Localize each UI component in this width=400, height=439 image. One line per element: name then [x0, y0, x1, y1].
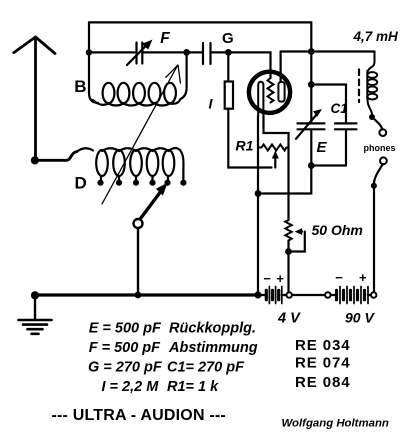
wire grid node to tube grid [228, 52, 270, 78]
svg-text:E: E [317, 139, 328, 156]
capacitor G [203, 43, 211, 64]
node selector-bus [135, 292, 142, 299]
wire rheostat to battery [287, 241, 289, 293]
coil D L1 [77, 148, 108, 176]
ground bus [35, 293, 258, 296]
tap selector arrow [134, 183, 168, 228]
wire 4V to 90V [292, 294, 325, 296]
svg-text:R1: R1 [236, 138, 254, 154]
tube grid [268, 78, 274, 103]
svg-text:+: + [359, 270, 367, 285]
ground symbol [19, 295, 52, 334]
potentiometer R1 [258, 145, 289, 151]
node tank left [86, 49, 92, 55]
svg-text:RE 034: RE 034 [295, 337, 350, 354]
capacitor F [127, 40, 153, 66]
wire antenna to coil D [35, 152, 77, 161]
svg-text:−: − [263, 271, 271, 286]
wire anode top [281, 50, 375, 52]
ground node [31, 291, 39, 299]
svg-text:Abstimmung: Abstimmung [168, 340, 258, 356]
node filament-bus junction [254, 291, 261, 298]
node grid [225, 49, 232, 56]
wire I to wiper [228, 109, 271, 168]
coil B L3 [133, 83, 145, 103]
svg-text:I = 2,2 M: I = 2,2 M [102, 379, 160, 395]
svg-text:+: + [276, 271, 284, 286]
node E bottom [308, 162, 315, 169]
svg-text:RE 084: RE 084 [295, 374, 350, 391]
battery 90V [331, 287, 372, 304]
choke core dashed line [358, 70, 360, 103]
svg-text:Wolfgang Holtmann: Wolfgang Holtmann [282, 418, 389, 430]
svg-text:RE 074: RE 074 [295, 355, 350, 372]
svg-text:phones: phones [364, 143, 396, 153]
phones terminal top [379, 129, 386, 136]
coil B L5 [164, 83, 176, 103]
node cathode return [255, 190, 262, 197]
coil D right hook [169, 148, 184, 170]
battery 4V [258, 287, 286, 304]
wire node down to resistor I [227, 52, 229, 81]
svg-text:E = 500 pF: E = 500 pF [89, 320, 162, 336]
coil D L3 [119, 148, 142, 176]
svg-text:F: F [160, 30, 170, 47]
tube anode [278, 52, 284, 102]
svg-text:F = 500 pF: F = 500 pF [89, 340, 161, 356]
svg-text:C1: C1 [331, 101, 348, 116]
wire anode node down [310, 52, 312, 122]
terminal 4V plus [287, 292, 292, 297]
coil B L1 [103, 83, 115, 103]
svg-text:−: − [335, 270, 343, 285]
wire tank to G [187, 51, 202, 53]
node anode junction [308, 48, 315, 55]
capacitor C1 [335, 85, 357, 166]
wire tank left vertical [88, 22, 90, 52]
wire filament left leg [257, 116, 259, 295]
node rheostat bottom [285, 248, 292, 255]
R1 wiper arrow [272, 151, 279, 168]
svg-text:G: G [222, 30, 234, 47]
svg-text:Rückkopplg.: Rückkopplg. [169, 320, 256, 336]
node tank right [183, 49, 190, 56]
phones terminal bottom [380, 157, 387, 164]
coil B right side [181, 52, 187, 99]
svg-text:C1= 270 pF: C1= 270 pF [167, 360, 245, 376]
node phones rail [371, 183, 377, 189]
wire E bottom [310, 131, 312, 166]
svg-text:4,7 mH: 4,7 mH [353, 29, 399, 44]
svg-text:R1= 1 k: R1= 1 k [167, 379, 219, 395]
wire phone terminal to rail [374, 164, 383, 183]
coil B L2 [118, 83, 130, 103]
wire E/C1 bottom link [311, 164, 346, 166]
svg-text:4 V: 4 V [277, 310, 301, 326]
svg-text:D: D [75, 173, 87, 192]
tube U1 envelope [249, 72, 290, 113]
node E top [308, 81, 315, 88]
svg-text:--- ULTRA - AUDION ---: --- ULTRA - AUDION --- [52, 407, 226, 424]
rheostat 50 Ohm [285, 220, 305, 252]
svg-text:B: B [74, 77, 86, 96]
wire selector to ground bus [137, 228, 139, 295]
long thin tuning arrow [102, 65, 180, 204]
tube filament [258, 82, 263, 116]
wire top right vertical [310, 22, 312, 51]
coil D L4 [136, 148, 158, 176]
wire choke to phone terminal [373, 118, 383, 130]
antenna [14, 37, 55, 160]
terminal 90V plus [371, 292, 376, 297]
wire tank mid to F [89, 51, 135, 53]
coil B left side [89, 52, 98, 103]
svg-text:50 Ohm: 50 Ohm [312, 222, 363, 238]
node antenna junction [31, 156, 39, 164]
wire E/C1 top link [311, 83, 346, 85]
wire tank top [89, 21, 311, 23]
wire cathode return [258, 166, 311, 194]
coil B L4 [149, 83, 161, 103]
wire G to grid node [212, 51, 229, 53]
wire right rail down [373, 186, 375, 292]
capacitor E variable [296, 109, 325, 139]
wire F to tank right [143, 51, 187, 53]
svg-text:G = 270 pF: G = 270 pF [88, 360, 163, 376]
wire filament right leg [264, 116, 289, 220]
terminal 90V minus [325, 292, 330, 297]
coil D taps [97, 170, 186, 186]
svg-text:I: I [209, 96, 214, 112]
svg-text:90 V: 90 V [345, 309, 375, 325]
coil D L2 [102, 148, 125, 176]
node choke bottom [369, 114, 375, 120]
coil D L5 [153, 148, 175, 176]
coil B bottom wire [93, 99, 181, 106]
resistor I [225, 82, 233, 109]
inductor choke 4.7mH [367, 52, 377, 115]
